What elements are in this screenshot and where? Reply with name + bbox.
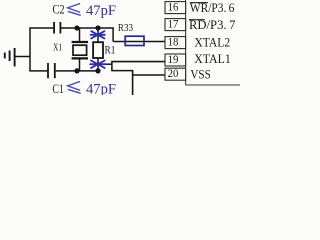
wire crystal top lead — [79, 28, 81, 42]
overline RD — [189, 19, 205, 21]
wire to pin 20 VSS — [133, 74, 166, 76]
wire R1 bottom lead — [97, 58, 99, 71]
node crystal bottom junction — [74, 68, 79, 73]
IC body edge — [186, 0, 240, 85]
svg-text:20: 20 — [168, 68, 179, 80]
label C1 less-equal — [68, 82, 81, 94]
wire to pin 19 XTAL1 — [111, 61, 165, 63]
wire ground to left vertical — [15, 56, 30, 58]
wire vss lower horizontal — [111, 70, 132, 72]
wire C1 to left vertical — [29, 70, 47, 72]
capacitor C2 — [54, 22, 60, 34]
pin 16 box — [165, 2, 186, 14]
svg-text:WR/P3. 6: WR/P3. 6 — [190, 1, 235, 15]
wire vss drop to edge — [132, 70, 134, 95]
overline WR — [190, 2, 208, 4]
resistor R33 — [125, 36, 144, 45]
wire crystal bottom lead — [79, 59, 81, 71]
svg-text:16: 16 — [168, 2, 179, 14]
pin 18 box — [165, 37, 186, 49]
svg-text:47pF: 47pF — [86, 3, 116, 19]
wire top jog down to R33 — [112, 28, 114, 42]
resistor R1 — [93, 42, 103, 58]
svg-text:XTAL2: XTAL2 — [194, 36, 230, 50]
svg-text:VSS: VSS — [190, 67, 210, 81]
wire top rail right of C2 — [60, 27, 113, 29]
wire bottom rail — [56, 70, 99, 72]
wire XTAL1 riser — [111, 62, 113, 71]
pin 20 box — [165, 68, 186, 80]
svg-text:R33: R33 — [118, 23, 133, 34]
svg-text:C2: C2 — [52, 2, 64, 17]
crystal X1 — [72, 42, 88, 58]
svg-text:18: 18 — [168, 37, 179, 49]
svg-text:19: 19 — [168, 54, 179, 66]
pin 17 box — [165, 19, 186, 31]
node R1 bottom junction — [95, 68, 100, 73]
wire R1 top lead — [97, 28, 99, 42]
svg-text:C1: C1 — [52, 81, 63, 95]
svg-text:47pF: 47pF — [86, 81, 116, 95]
node crystal top junction — [74, 25, 79, 30]
wire top rail left of C2 — [29, 27, 54, 29]
svg-text:17: 17 — [168, 19, 179, 31]
node R1 top junction — [95, 25, 100, 30]
svg-text:X1: X1 — [53, 42, 62, 54]
capacitor C1 — [48, 63, 55, 78]
wire XTAL1 stub from node — [98, 63, 112, 65]
asterisk mark bottom — [90, 61, 105, 68]
ground — [5, 48, 15, 67]
wire left vertical — [29, 28, 31, 71]
wire to pin 18 XTAL2 through R33 — [113, 41, 165, 43]
svg-text:XTAL1: XTAL1 — [194, 52, 231, 66]
label C2 less-equal — [68, 4, 81, 16]
pin 19 box — [165, 54, 186, 66]
asterisk mark top — [91, 31, 105, 38]
svg-text:RD/P3. 7: RD/P3. 7 — [189, 18, 235, 32]
svg-text:R1: R1 — [105, 44, 116, 56]
